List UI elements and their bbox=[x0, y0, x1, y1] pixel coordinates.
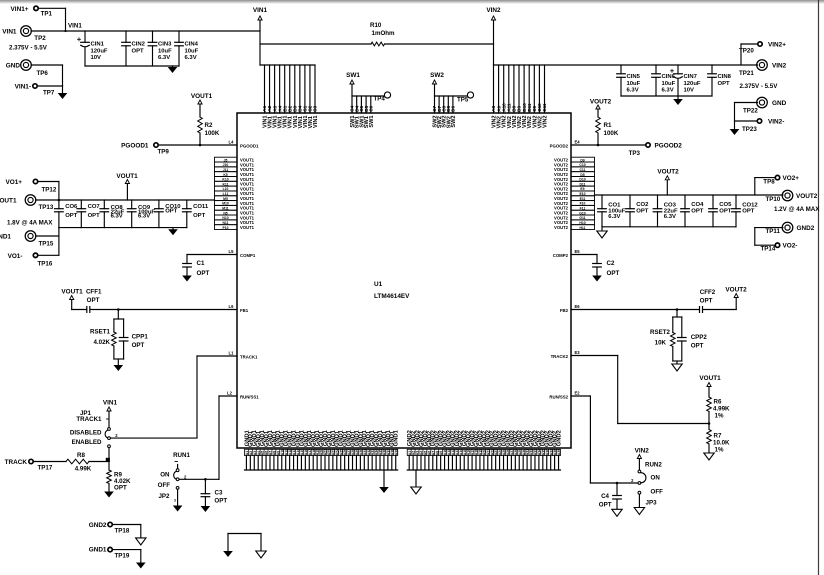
svg-text:VOUT2: VOUT2 bbox=[554, 225, 569, 230]
svg-text:E6: E6 bbox=[574, 304, 580, 309]
svg-text:C2: C2 bbox=[607, 260, 615, 267]
svg-text:TP1: TP1 bbox=[41, 10, 53, 17]
svg-text:VOUT1: VOUT1 bbox=[61, 289, 83, 296]
svg-text:TP16: TP16 bbox=[38, 261, 53, 268]
svg-text:VIN1-: VIN1- bbox=[15, 84, 31, 91]
svg-text:OPT: OPT bbox=[700, 298, 713, 305]
svg-text:E5: E5 bbox=[574, 249, 580, 254]
svg-text:RSET2: RSET2 bbox=[650, 329, 671, 336]
svg-text:OPT: OPT bbox=[65, 213, 78, 219]
svg-text:10uF: 10uF bbox=[158, 48, 172, 54]
svg-text:CIN4: CIN4 bbox=[185, 42, 199, 48]
svg-text:TP19: TP19 bbox=[115, 553, 130, 560]
svg-text:OPT: OPT bbox=[114, 485, 127, 492]
svg-text:FB1: FB1 bbox=[240, 308, 249, 313]
svg-text:OPT: OPT bbox=[132, 48, 145, 54]
svg-text:TP4: TP4 bbox=[374, 96, 386, 103]
svg-text:1%: 1% bbox=[715, 447, 724, 454]
svg-text:GND2: GND2 bbox=[89, 522, 107, 529]
svg-text:10uF: 10uF bbox=[662, 81, 676, 87]
svg-text:TRACK: TRACK bbox=[5, 459, 28, 466]
svg-text:CFF2: CFF2 bbox=[700, 289, 716, 296]
svg-text:100K: 100K bbox=[205, 130, 220, 137]
svg-text:C4: C4 bbox=[601, 493, 609, 500]
svg-text:C3: C3 bbox=[215, 490, 223, 497]
svg-text:DISABLED: DISABLED bbox=[70, 430, 102, 437]
svg-text:TP15: TP15 bbox=[39, 241, 54, 248]
svg-text:2: 2 bbox=[631, 478, 634, 483]
svg-text:TP23: TP23 bbox=[742, 126, 757, 133]
svg-text:CPP1: CPP1 bbox=[132, 334, 149, 341]
svg-text:GND2: GND2 bbox=[797, 225, 815, 232]
svg-text:L2: L2 bbox=[227, 391, 233, 396]
svg-text:VIN2: VIN2 bbox=[486, 7, 501, 14]
svg-text:SW2: SW2 bbox=[451, 116, 457, 128]
svg-text:H11: H11 bbox=[579, 226, 585, 230]
svg-text:VIN1: VIN1 bbox=[2, 28, 17, 35]
svg-text:SW1: SW1 bbox=[369, 116, 375, 128]
svg-text:TP10: TP10 bbox=[766, 196, 781, 203]
svg-text:OPT: OPT bbox=[636, 209, 649, 215]
svg-text:GND1: GND1 bbox=[0, 234, 11, 241]
svg-text:CO2: CO2 bbox=[636, 202, 649, 208]
svg-text:6.3V: 6.3V bbox=[111, 214, 123, 220]
svg-text:TP12: TP12 bbox=[42, 187, 57, 194]
svg-text:CIN7: CIN7 bbox=[684, 74, 698, 80]
svg-text:L6: L6 bbox=[229, 304, 235, 309]
svg-text:RUN/SS2: RUN/SS2 bbox=[549, 395, 568, 400]
svg-text:R6: R6 bbox=[714, 399, 722, 406]
svg-text:L4: L4 bbox=[229, 140, 235, 145]
svg-text:A39: A39 bbox=[557, 449, 561, 455]
svg-text:VIN2+: VIN2+ bbox=[768, 42, 786, 49]
svg-text:GND2: GND2 bbox=[556, 430, 562, 446]
svg-text:L5: L5 bbox=[229, 249, 235, 254]
svg-text:LTM4614EV: LTM4614EV bbox=[374, 293, 410, 300]
svg-text:TP13: TP13 bbox=[39, 204, 54, 211]
svg-text:OFF: OFF bbox=[158, 482, 171, 489]
svg-text:E2: E2 bbox=[574, 391, 580, 396]
svg-text:TP9: TP9 bbox=[158, 149, 170, 156]
svg-text:OPT: OPT bbox=[607, 270, 620, 277]
svg-text:VOUT1: VOUT1 bbox=[191, 93, 213, 100]
svg-text:VIN2: VIN2 bbox=[543, 116, 549, 128]
svg-text:CIN2: CIN2 bbox=[132, 42, 146, 48]
svg-text:VIN1: VIN1 bbox=[313, 116, 319, 128]
svg-text:3: 3 bbox=[174, 499, 176, 503]
svg-text:VO1-: VO1- bbox=[8, 253, 23, 260]
svg-text:R10: R10 bbox=[370, 22, 382, 29]
svg-text:SW1: SW1 bbox=[346, 72, 360, 79]
svg-text:JP3: JP3 bbox=[646, 500, 658, 507]
svg-text:R1: R1 bbox=[604, 122, 612, 129]
svg-text:C3: C3 bbox=[313, 105, 318, 111]
svg-text:VIN2: VIN2 bbox=[635, 448, 650, 455]
svg-text:COMP1: COMP1 bbox=[240, 253, 256, 258]
svg-text:6.3V: 6.3V bbox=[138, 214, 150, 220]
svg-text:2: 2 bbox=[115, 433, 118, 438]
svg-text:CO7: CO7 bbox=[88, 204, 101, 210]
svg-text:6.3V: 6.3V bbox=[158, 55, 170, 61]
svg-text:4.99K: 4.99K bbox=[713, 406, 730, 413]
svg-text:OPT: OPT bbox=[691, 343, 704, 350]
svg-text:VO2+: VO2+ bbox=[783, 175, 800, 182]
svg-text:RUN1: RUN1 bbox=[173, 452, 190, 459]
svg-text:ON: ON bbox=[651, 475, 661, 482]
svg-text:VO2-: VO2- bbox=[783, 243, 798, 250]
svg-text:JP2: JP2 bbox=[158, 493, 170, 500]
svg-text:RSET1: RSET1 bbox=[90, 329, 111, 336]
svg-text:2.375V - 5.5V: 2.375V - 5.5V bbox=[740, 83, 779, 90]
svg-text:VOUT2: VOUT2 bbox=[796, 193, 818, 200]
svg-text:VIN1: VIN1 bbox=[253, 7, 268, 14]
svg-text:TP21: TP21 bbox=[739, 70, 754, 77]
svg-text:FB2: FB2 bbox=[560, 308, 569, 313]
svg-text:CPP2: CPP2 bbox=[691, 334, 708, 341]
svg-text:GND: GND bbox=[772, 100, 787, 107]
svg-text:TRACK1: TRACK1 bbox=[240, 355, 258, 360]
svg-text:TRACK1: TRACK1 bbox=[76, 416, 102, 423]
svg-text:CO6: CO6 bbox=[65, 204, 78, 210]
svg-text:TP11: TP11 bbox=[766, 228, 781, 235]
svg-text:6.3V: 6.3V bbox=[664, 214, 676, 220]
svg-text:CIN3: CIN3 bbox=[158, 42, 172, 48]
svg-text:VIN1+: VIN1+ bbox=[11, 6, 29, 13]
svg-text:TRACK2: TRACK2 bbox=[551, 354, 569, 359]
svg-text:120uF: 120uF bbox=[91, 48, 108, 54]
svg-text:GND: GND bbox=[6, 63, 21, 70]
svg-text:120uF: 120uF bbox=[684, 81, 701, 87]
svg-text:1%: 1% bbox=[715, 413, 724, 420]
svg-text:PGOOD1: PGOOD1 bbox=[121, 143, 149, 150]
svg-text:VOUT1: VOUT1 bbox=[240, 225, 255, 230]
svg-text:TP18: TP18 bbox=[115, 528, 130, 535]
svg-text:VOUT2: VOUT2 bbox=[657, 169, 679, 176]
svg-text:CO11: CO11 bbox=[193, 204, 209, 210]
svg-text:VIN1: VIN1 bbox=[68, 23, 82, 30]
svg-text:CIN1: CIN1 bbox=[91, 42, 105, 48]
svg-text:VOUT2: VOUT2 bbox=[725, 287, 747, 294]
svg-text:100K: 100K bbox=[604, 130, 619, 137]
svg-text:R8: R8 bbox=[77, 452, 85, 459]
svg-text:OPT: OPT bbox=[165, 209, 178, 215]
svg-text:OPT: OPT bbox=[87, 297, 100, 304]
svg-text:CIN5: CIN5 bbox=[627, 74, 641, 80]
svg-text:OPT: OPT bbox=[718, 81, 731, 87]
svg-text:OPT: OPT bbox=[132, 342, 145, 349]
svg-text:10V: 10V bbox=[684, 88, 695, 94]
svg-text:PGOOD2: PGOOD2 bbox=[550, 144, 569, 149]
svg-text:10.0K: 10.0K bbox=[713, 440, 730, 447]
svg-text:OFF: OFF bbox=[651, 489, 664, 496]
svg-text:4.99K: 4.99K bbox=[75, 466, 92, 473]
svg-text:10K: 10K bbox=[655, 340, 667, 347]
svg-text:VOUT1: VOUT1 bbox=[699, 375, 721, 382]
svg-text:R2: R2 bbox=[205, 122, 213, 129]
svg-text:VIN2: VIN2 bbox=[772, 63, 787, 70]
svg-text:6.3V: 6.3V bbox=[185, 55, 197, 61]
svg-text:OPT: OPT bbox=[193, 213, 206, 219]
svg-text:VIN1: VIN1 bbox=[103, 400, 118, 407]
svg-text:SW2: SW2 bbox=[430, 72, 444, 79]
svg-text:6.3V: 6.3V bbox=[608, 214, 620, 220]
svg-text:6.3V: 6.3V bbox=[627, 88, 639, 94]
svg-text:1.2V @ 4A MAX: 1.2V @ 4A MAX bbox=[774, 206, 820, 213]
svg-text:D6: D6 bbox=[451, 105, 456, 111]
svg-text:GND1: GND1 bbox=[394, 429, 400, 446]
svg-text:10V: 10V bbox=[91, 55, 102, 61]
svg-text:A39: A39 bbox=[394, 449, 398, 455]
svg-text:1.8V @ 4A MAX: 1.8V @ 4A MAX bbox=[7, 220, 53, 227]
svg-text:4.02K: 4.02K bbox=[93, 339, 110, 346]
svg-text:CO5: CO5 bbox=[719, 202, 732, 208]
svg-text:VOUT2: VOUT2 bbox=[590, 99, 612, 106]
svg-text:GND1: GND1 bbox=[89, 547, 107, 554]
svg-text:L1: L1 bbox=[229, 351, 235, 356]
svg-text:C6: C6 bbox=[369, 105, 374, 111]
svg-text:TP22: TP22 bbox=[743, 108, 758, 115]
svg-text:TP5: TP5 bbox=[457, 97, 469, 104]
svg-text:OPT: OPT bbox=[88, 213, 101, 219]
svg-text:ON: ON bbox=[160, 472, 170, 479]
svg-text:TP17: TP17 bbox=[38, 465, 53, 472]
svg-text:TP8: TP8 bbox=[763, 178, 775, 185]
svg-text:1mOhm: 1mOhm bbox=[372, 30, 396, 37]
svg-text:PGOOD1: PGOOD1 bbox=[240, 144, 259, 149]
svg-text:C11: C11 bbox=[542, 103, 547, 112]
svg-text:R7: R7 bbox=[714, 433, 722, 440]
svg-text:VIN2-: VIN2- bbox=[768, 119, 784, 126]
svg-text:TP7: TP7 bbox=[43, 90, 55, 97]
svg-text:E4: E4 bbox=[574, 140, 580, 145]
svg-text:10uF: 10uF bbox=[185, 48, 199, 54]
svg-text:OPT: OPT bbox=[599, 502, 612, 509]
svg-text:RUN2: RUN2 bbox=[645, 462, 662, 469]
svg-text:RUN/SS1: RUN/SS1 bbox=[240, 395, 259, 400]
svg-text:OPT: OPT bbox=[691, 209, 704, 215]
svg-text:E3: E3 bbox=[574, 350, 580, 355]
svg-text:CFF1: CFF1 bbox=[86, 289, 102, 296]
svg-text:U1: U1 bbox=[374, 281, 383, 288]
svg-text:OPT: OPT bbox=[214, 498, 227, 505]
svg-text:2.375V - 5.5V: 2.375V - 5.5V bbox=[9, 45, 48, 52]
svg-text:VOUT1: VOUT1 bbox=[0, 198, 17, 205]
svg-text:OPT: OPT bbox=[742, 209, 755, 215]
svg-text:TP14: TP14 bbox=[761, 246, 776, 253]
svg-text:CIN8: CIN8 bbox=[718, 74, 732, 80]
svg-text:6.3V: 6.3V bbox=[662, 88, 674, 94]
svg-text:10uF: 10uF bbox=[627, 81, 641, 87]
svg-text:TP2: TP2 bbox=[34, 35, 46, 42]
svg-text:PGOOD2: PGOOD2 bbox=[655, 143, 683, 150]
svg-text:TP6: TP6 bbox=[37, 70, 49, 77]
svg-text:ENABLED: ENABLED bbox=[72, 439, 102, 446]
svg-text:P10: P10 bbox=[222, 226, 228, 230]
svg-text:OPT: OPT bbox=[197, 270, 210, 277]
svg-text:COMP2: COMP2 bbox=[553, 253, 569, 258]
svg-text:CO4: CO4 bbox=[691, 202, 704, 208]
svg-text:TP3: TP3 bbox=[629, 150, 641, 157]
svg-text:OPT: OPT bbox=[719, 209, 732, 215]
svg-text:C1: C1 bbox=[197, 260, 205, 267]
svg-text:VO1+: VO1+ bbox=[5, 179, 22, 186]
svg-text:2: 2 bbox=[184, 474, 187, 479]
